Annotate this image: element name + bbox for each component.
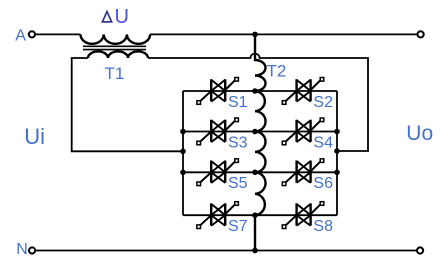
wire left bus — [182, 91, 184, 215]
svg-text:U: U — [115, 6, 129, 28]
junction T2 top tap on line A — [252, 32, 258, 38]
terminal A — [29, 31, 35, 37]
autotransformer T2 tapped winding — [255, 34, 266, 250]
junction T2 bottom on N line — [252, 248, 258, 254]
wire row S5/S6 — [183, 171, 337, 173]
junction T2 tap row 1 — [252, 88, 258, 94]
thyristor pair S7 — [197, 202, 239, 229]
junction left bus S5 row — [180, 170, 186, 176]
junction left bus S3 row — [180, 129, 186, 135]
junction left bus feed — [180, 149, 186, 155]
svg-text:A: A — [15, 28, 26, 45]
thyristor pair S2 — [282, 78, 324, 105]
thyristor pair S3 — [197, 118, 239, 145]
thyristor pair S6 — [282, 159, 324, 186]
svg-text:S6: S6 — [313, 175, 333, 192]
svg-text:S7: S7 — [228, 218, 248, 235]
transformer T1 primary winding — [81, 34, 151, 43]
thyristor pair S4 — [282, 118, 324, 145]
svg-text:Uo: Uo — [406, 122, 433, 145]
junction right bus link — [334, 148, 340, 154]
svg-text:N: N — [16, 241, 28, 258]
wire row S3/S4 — [183, 131, 337, 133]
svg-text:S5: S5 — [228, 175, 248, 192]
wire row S7/S8 — [183, 214, 337, 216]
svg-text:S8: S8 — [313, 218, 333, 235]
label deltaU triangle — [102, 12, 111, 22]
wire phase A input — [35, 33, 81, 35]
svg-text:S2: S2 — [313, 94, 333, 111]
wire row S1/S2 — [183, 90, 337, 92]
terminal output top — [418, 31, 424, 37]
junction right bus S6 row — [334, 170, 340, 176]
thyristor pair S8 — [282, 202, 324, 229]
transformer T1 core — [83, 46, 146, 49]
svg-text:S1: S1 — [228, 94, 248, 111]
junction T2 tap row 4 — [252, 212, 258, 218]
junction T2 tap row 3 — [252, 170, 258, 176]
junction right bus S4 row — [334, 129, 340, 135]
svg-text:Ui: Ui — [24, 124, 45, 149]
junction T2 tap row 2 — [252, 129, 258, 135]
svg-text:T2: T2 — [267, 62, 287, 81]
terminal N — [29, 247, 35, 253]
transformer T1 secondary winding — [88, 51, 148, 58]
svg-text:S3: S3 — [228, 134, 248, 151]
wire top line to output — [150, 33, 417, 35]
wire neutral N line — [35, 250, 417, 252]
thyristor pair S5 — [197, 159, 239, 186]
thyristor pair S1 — [197, 78, 239, 105]
wire T1 secondary right lead with hop over T2, down to right bus — [148, 54, 368, 151]
terminal output bottom — [417, 247, 423, 253]
wire T1 secondary left lead, drop and feed to left bus — [72, 58, 183, 151]
svg-text:S4: S4 — [313, 134, 333, 151]
svg-text:T1: T1 — [105, 64, 125, 83]
wire right bus — [336, 91, 338, 215]
